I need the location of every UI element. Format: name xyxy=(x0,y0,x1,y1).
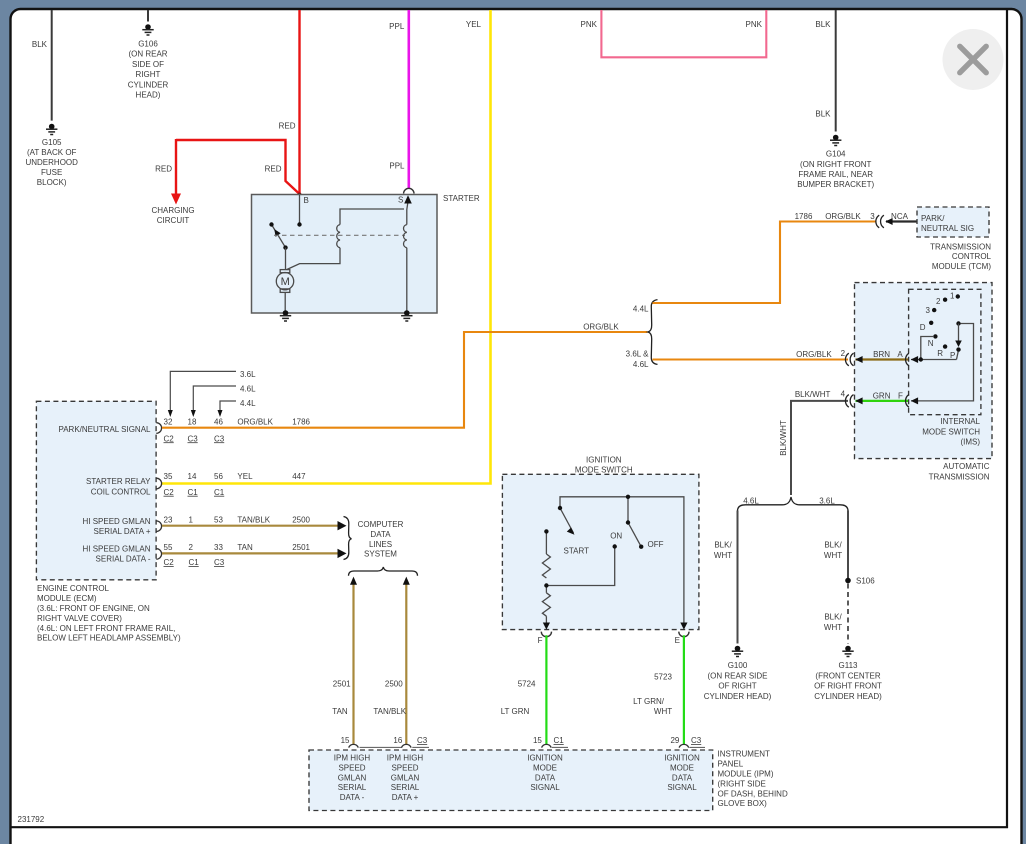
arrow to charging circuit xyxy=(151,194,194,226)
svg-text:F: F xyxy=(538,636,543,645)
svg-text:4: 4 xyxy=(841,390,846,399)
starter solenoid contact switch xyxy=(272,225,286,248)
wire TAN/BLK 2500 to IPM xyxy=(373,577,409,745)
svg-text:HI SPEED GMLAN: HI SPEED GMLAN xyxy=(82,545,150,554)
svg-text:F: F xyxy=(898,392,903,401)
svg-text:CYLINDER: CYLINDER xyxy=(128,80,169,89)
svg-text:231792: 231792 xyxy=(18,815,45,824)
node B junction dot red wire xyxy=(298,193,302,197)
engine variant stub 3.6L xyxy=(168,370,256,417)
svg-text:14: 14 xyxy=(188,472,197,481)
svg-text:MODULE (ECM): MODULE (ECM) xyxy=(37,594,97,603)
svg-text:LINES: LINES xyxy=(369,540,392,549)
svg-text:PARK/: PARK/ xyxy=(921,214,945,223)
svg-text:GMLAN: GMLAN xyxy=(391,773,420,782)
svg-text:HI SPEED GMLAN: HI SPEED GMLAN xyxy=(82,517,150,526)
IPM caption xyxy=(718,750,788,809)
svg-text:RED: RED xyxy=(155,165,172,174)
wire TAN serial data - xyxy=(162,549,347,558)
overbrace to IPM wires xyxy=(349,567,418,576)
svg-text:53: 53 xyxy=(214,515,223,524)
pin labels starter relay row xyxy=(164,472,307,497)
svg-text:INSTRUMENT: INSTRUMENT xyxy=(718,750,771,759)
connector arcs TCM xyxy=(876,215,884,228)
svg-text:C2: C2 xyxy=(164,434,175,443)
svg-text:TAN/BLK: TAN/BLK xyxy=(373,707,406,716)
svg-text:CYLINDER HEAD): CYLINDER HEAD) xyxy=(704,692,772,701)
svg-text:C3: C3 xyxy=(691,736,702,745)
svg-text:ORG/BLK: ORG/BLK xyxy=(796,350,832,359)
svg-text:(FRONT CENTER: (FRONT CENTER xyxy=(815,671,880,680)
svg-text:RED: RED xyxy=(265,165,282,174)
IMS connector arc F xyxy=(906,395,909,408)
automatic transmission box xyxy=(855,283,993,482)
svg-text:PNK: PNK xyxy=(581,20,598,29)
ECM pin connector arcs xyxy=(156,423,161,560)
svg-text:BLK: BLK xyxy=(815,20,831,29)
svg-text:N: N xyxy=(928,339,934,348)
svg-text:DATA -: DATA - xyxy=(340,793,365,802)
svg-text:BUMPER BRACKET): BUMPER BRACKET) xyxy=(797,180,874,189)
ground G113 xyxy=(814,646,882,701)
svg-text:IGNITION: IGNITION xyxy=(527,754,563,763)
svg-text:1: 1 xyxy=(950,292,955,301)
svg-text:ORG/BLK: ORG/BLK xyxy=(825,212,861,221)
svg-text:PPL: PPL xyxy=(389,22,405,31)
svg-text:447: 447 xyxy=(292,472,306,481)
svg-text:(AT BACK OF: (AT BACK OF xyxy=(27,148,77,157)
starter box xyxy=(252,194,480,313)
svg-text:E: E xyxy=(675,636,680,645)
pin labels serial data - row xyxy=(164,543,311,567)
svg-text:G113: G113 xyxy=(839,661,859,670)
svg-text:P: P xyxy=(950,351,955,360)
wire LT GRN 5724 xyxy=(501,635,547,744)
brace BLK/WHT split xyxy=(738,497,849,512)
pin E arrow xyxy=(675,623,689,646)
IMS internal wiring A xyxy=(911,337,958,360)
svg-text:A: A xyxy=(897,350,903,359)
IMS position dots xyxy=(929,294,961,352)
svg-text:COMPUTER: COMPUTER xyxy=(358,520,404,529)
svg-text:S: S xyxy=(398,195,403,204)
svg-text:BLK/: BLK/ xyxy=(714,541,732,550)
svg-text:SERIAL: SERIAL xyxy=(391,783,420,792)
svg-text:2501: 2501 xyxy=(292,543,310,552)
svg-text:(ON REAR: (ON REAR xyxy=(128,50,167,59)
starter pull-in coil xyxy=(287,209,404,270)
svg-text:G105: G105 xyxy=(42,138,62,147)
svg-text:ENGINE CONTROL: ENGINE CONTROL xyxy=(37,584,110,593)
svg-text:MODE: MODE xyxy=(670,764,694,773)
svg-text:BLOCK): BLOCK) xyxy=(37,178,67,187)
close button xyxy=(943,29,1004,90)
svg-text:OF RIGHT: OF RIGHT xyxy=(718,682,756,691)
svg-text:(RIGHT SIDE: (RIGHT SIDE xyxy=(718,779,766,788)
brace ORG/BLK split xyxy=(648,300,658,365)
IMS connector arc A xyxy=(906,353,909,366)
svg-text:CYLINDER HEAD): CYLINDER HEAD) xyxy=(814,692,882,701)
svg-text:3.6L: 3.6L xyxy=(819,497,835,506)
svg-text:SIGNAL: SIGNAL xyxy=(530,783,560,792)
svg-text:C2: C2 xyxy=(164,488,175,497)
svg-text:MODE SWITCH: MODE SWITCH xyxy=(922,427,980,436)
svg-text:SIDE OF: SIDE OF xyxy=(132,60,164,69)
svg-text:4.4L: 4.4L xyxy=(633,305,649,314)
svg-text:CIRCUIT: CIRCUIT xyxy=(157,216,190,225)
svg-text:RIGHT: RIGHT xyxy=(136,70,161,79)
wire YEL from top to ECM xyxy=(162,10,491,484)
svg-text:BLK: BLK xyxy=(815,110,831,119)
svg-text:IPM HIGH: IPM HIGH xyxy=(387,754,424,763)
IMS internal wiring F xyxy=(911,324,974,401)
svg-text:3: 3 xyxy=(870,212,875,221)
svg-text:2500: 2500 xyxy=(292,515,310,524)
splice S106 xyxy=(845,577,875,586)
svg-text:IPM HIGH: IPM HIGH xyxy=(334,754,371,763)
svg-text:YEL: YEL xyxy=(237,472,253,481)
wire PNK loop xyxy=(601,10,766,57)
svg-text:MODE SWITCH: MODE SWITCH xyxy=(575,465,633,474)
starter linkage dashed xyxy=(274,234,405,236)
svg-text:OF DASH, BEHIND: OF DASH, BEHIND xyxy=(718,789,788,798)
svg-text:C3: C3 xyxy=(188,434,199,443)
starter hold-in coil xyxy=(404,198,409,314)
wire GRN F xyxy=(855,392,908,405)
svg-text:RED: RED xyxy=(279,122,296,131)
wire ORG/BLK from ECM xyxy=(162,323,648,428)
ECM box xyxy=(36,401,156,580)
svg-text:LT GRN/: LT GRN/ xyxy=(633,697,665,706)
wire BLK/WHT to IMS F xyxy=(779,390,848,496)
svg-text:29: 29 xyxy=(670,736,679,745)
connector arcs IMS A outer xyxy=(845,353,853,366)
svg-text:BLK/WHT: BLK/WHT xyxy=(795,390,831,399)
brace computer data lines xyxy=(344,517,404,560)
svg-text:32: 32 xyxy=(164,417,173,426)
svg-text:5723: 5723 xyxy=(654,673,672,682)
svg-text:46: 46 xyxy=(214,417,223,426)
svg-text:MODULE (IPM): MODULE (IPM) xyxy=(718,770,774,779)
svg-text:4.6L: 4.6L xyxy=(240,384,256,393)
svg-text:TRANSMISSION: TRANSMISSION xyxy=(930,242,991,251)
svg-text:TRANSMISSION: TRANSMISSION xyxy=(929,472,990,481)
svg-text:2: 2 xyxy=(841,349,846,358)
IMS selector arm xyxy=(955,324,962,348)
svg-text:WHT: WHT xyxy=(654,707,672,716)
wire TAN 2501 to IPM xyxy=(332,577,357,745)
pin labels park/neutral row xyxy=(164,417,311,443)
svg-text:HEAD): HEAD) xyxy=(136,91,161,100)
svg-text:IGNITION: IGNITION xyxy=(664,754,700,763)
svg-text:4.4L: 4.4L xyxy=(240,399,256,408)
engine variant stub 4.4L xyxy=(218,399,257,417)
svg-text:RIGHT VALVE COVER): RIGHT VALVE COVER) xyxy=(37,614,122,623)
TCM box xyxy=(917,207,989,237)
dashed wire BLK/WHT to G113 xyxy=(824,584,848,644)
svg-text:56: 56 xyxy=(214,472,223,481)
svg-text:DATA: DATA xyxy=(370,530,391,539)
svg-text:C2: C2 xyxy=(164,558,175,567)
wire BLK/WHT to G100 xyxy=(714,511,738,644)
IMS inner box xyxy=(909,289,981,446)
svg-text:C3: C3 xyxy=(214,558,225,567)
svg-text:15: 15 xyxy=(533,736,542,745)
wire BRN A xyxy=(855,350,908,363)
svg-text:OF RIGHT FRONT: OF RIGHT FRONT xyxy=(814,682,882,691)
starter coil ground xyxy=(401,310,412,321)
svg-text:3: 3 xyxy=(926,306,931,315)
starter motor M xyxy=(276,270,293,313)
ignition switch resistors xyxy=(542,554,550,616)
svg-text:SIGNAL: SIGNAL xyxy=(667,783,697,792)
svg-text:SERIAL DATA +: SERIAL DATA + xyxy=(94,527,151,536)
svg-text:D: D xyxy=(920,323,926,332)
svg-text:INTERNAL: INTERNAL xyxy=(940,417,980,426)
svg-text:5724: 5724 xyxy=(518,680,536,689)
svg-text:DATA: DATA xyxy=(535,773,556,782)
svg-text:GMLAN: GMLAN xyxy=(338,773,367,782)
svg-text:G104: G104 xyxy=(826,150,846,159)
ground G100 xyxy=(704,646,772,701)
IPM column labels xyxy=(334,754,700,802)
svg-text:BLK/WHT: BLK/WHT xyxy=(779,420,788,456)
svg-text:C1: C1 xyxy=(188,488,199,497)
wire NCA to TCM xyxy=(885,212,917,225)
IPM box xyxy=(309,750,713,811)
svg-text:33: 33 xyxy=(214,543,223,552)
svg-text:2: 2 xyxy=(936,297,941,306)
svg-text:3.6L &: 3.6L & xyxy=(626,350,649,359)
svg-text:C3: C3 xyxy=(417,736,428,745)
svg-text:18: 18 xyxy=(188,417,197,426)
IPM pin 15 C1 xyxy=(533,736,568,747)
svg-text:R: R xyxy=(937,349,943,358)
svg-text:YEL: YEL xyxy=(466,20,482,29)
engine variant stub 4.6L xyxy=(191,384,256,417)
svg-text:PANEL: PANEL xyxy=(718,760,744,769)
svg-text:55: 55 xyxy=(164,543,173,552)
wire ORG/BLK 4.4L branch to TCM xyxy=(633,212,876,314)
ground G105 xyxy=(25,124,78,187)
svg-text:2501: 2501 xyxy=(333,680,351,689)
pin labels serial data + row xyxy=(164,515,311,524)
svg-text:1786: 1786 xyxy=(292,417,310,426)
svg-text:C1: C1 xyxy=(214,488,225,497)
pin F arrow xyxy=(538,623,552,646)
IPM pin 15 xyxy=(341,736,402,747)
wire TAN/BLK serial data + xyxy=(162,521,347,530)
svg-text:(ON RIGHT FRONT: (ON RIGHT FRONT xyxy=(800,160,872,169)
svg-text:OFF: OFF xyxy=(648,540,664,549)
wire contact to motor xyxy=(285,248,287,270)
svg-text:DATA +: DATA + xyxy=(392,793,419,802)
wire LT GRN/WHT 5723 xyxy=(633,635,684,744)
svg-text:2: 2 xyxy=(189,543,194,552)
svg-text:TAN: TAN xyxy=(237,543,253,552)
svg-text:DATA: DATA xyxy=(672,773,693,782)
svg-text:TAN: TAN xyxy=(332,707,348,716)
ECM caption xyxy=(37,584,181,643)
svg-text:(3.6L: FRONT OF ENGINE, ON: (3.6L: FRONT OF ENGINE, ON xyxy=(37,604,150,613)
svg-text:MODULE (TCM): MODULE (TCM) xyxy=(932,262,991,271)
svg-text:B: B xyxy=(304,196,309,205)
svg-text:2500: 2500 xyxy=(385,680,403,689)
svg-text:BRN: BRN xyxy=(873,350,890,359)
svg-text:BLK/: BLK/ xyxy=(824,613,842,622)
svg-text:SERIAL: SERIAL xyxy=(338,783,367,792)
svg-text:16: 16 xyxy=(393,736,402,745)
svg-text:23: 23 xyxy=(164,515,173,524)
svg-text:4.6L: 4.6L xyxy=(743,497,759,506)
svg-text:PNK: PNK xyxy=(746,20,763,29)
svg-text:NCA: NCA xyxy=(891,212,909,221)
svg-text:COIL CONTROL: COIL CONTROL xyxy=(91,488,151,497)
svg-text:AUTOMATIC: AUTOMATIC xyxy=(943,462,990,471)
svg-text:CHARGING: CHARGING xyxy=(151,206,194,215)
svg-text:WHT: WHT xyxy=(824,551,842,560)
TCM caption xyxy=(930,242,991,271)
ground G106 xyxy=(128,24,169,99)
wire ORG/BLK 3.6L 4.6L branch to IMS xyxy=(626,349,848,369)
svg-text:MODE: MODE xyxy=(533,764,557,773)
svg-text:SYSTEM: SYSTEM xyxy=(364,550,397,559)
connector arcs IMS F outer xyxy=(845,395,853,408)
svg-text:1: 1 xyxy=(189,515,194,524)
svg-text:3.6L: 3.6L xyxy=(240,370,256,379)
svg-text:STARTER: STARTER xyxy=(443,194,480,203)
wire RED battery feed xyxy=(176,10,300,196)
starter B pin wire xyxy=(297,195,301,227)
svg-text:UNDERHOOD: UNDERHOOD xyxy=(25,158,78,167)
svg-text:FRAME RAIL, NEAR: FRAME RAIL, NEAR xyxy=(798,170,873,179)
wire PPL from top xyxy=(389,10,409,188)
svg-text:GLOVE BOX): GLOVE BOX) xyxy=(718,799,768,808)
svg-text:FUSE: FUSE xyxy=(41,168,62,177)
svg-text:M: M xyxy=(281,276,290,288)
svg-text:GRN: GRN xyxy=(873,392,891,401)
svg-text:(4.6L: ON LEFT FRONT FRAME RAI: (4.6L: ON LEFT FRONT FRAME RAIL, xyxy=(37,624,175,633)
starter motor ground xyxy=(280,310,291,321)
svg-text:ON: ON xyxy=(610,531,622,540)
svg-text:BLK: BLK xyxy=(32,40,48,49)
svg-text:G106: G106 xyxy=(138,40,158,49)
svg-text:NEUTRAL SIG: NEUTRAL SIG xyxy=(921,224,974,233)
svg-text:LT GRN: LT GRN xyxy=(501,707,530,716)
svg-text:SPEED: SPEED xyxy=(338,764,365,773)
svg-text:PARK/NEUTRAL SIGNAL: PARK/NEUTRAL SIGNAL xyxy=(58,425,151,434)
svg-text:IGNITION: IGNITION xyxy=(586,455,622,464)
svg-text:WHT: WHT xyxy=(714,551,732,560)
svg-text:STARTER RELAY: STARTER RELAY xyxy=(86,477,151,486)
ignition switch contacts xyxy=(544,495,663,588)
svg-text:35: 35 xyxy=(164,472,173,481)
IPM pin 16 xyxy=(393,736,429,747)
ignition mode switch box xyxy=(502,455,699,629)
svg-text:1786: 1786 xyxy=(795,212,813,221)
svg-text:SERIAL DATA -: SERIAL DATA - xyxy=(96,555,151,564)
svg-text:SPEED: SPEED xyxy=(391,764,418,773)
wire BLK/WHT to S106 xyxy=(824,511,848,579)
svg-text:G100: G100 xyxy=(728,661,748,670)
svg-text:15: 15 xyxy=(341,736,350,745)
svg-text:ORG/BLK: ORG/BLK xyxy=(583,323,619,332)
svg-text:C1: C1 xyxy=(189,558,200,567)
wire BLK to G104 xyxy=(815,10,835,132)
ignition switch internal wiring xyxy=(546,497,684,625)
wire BLK to G106 xyxy=(147,10,149,22)
svg-text:CONTROL: CONTROL xyxy=(952,252,992,261)
svg-text:START: START xyxy=(564,547,590,556)
svg-text:PPL: PPL xyxy=(389,161,405,170)
svg-text:(IMS): (IMS) xyxy=(960,438,980,447)
svg-text:WHT: WHT xyxy=(824,623,842,632)
svg-text:(ON REAR SIDE: (ON REAR SIDE xyxy=(707,671,767,680)
svg-text:C3: C3 xyxy=(214,434,225,443)
svg-text:4.6L: 4.6L xyxy=(633,360,649,369)
svg-text:C1: C1 xyxy=(554,736,565,745)
IPM pin 29 C3 xyxy=(670,736,705,747)
connector cap at starter S xyxy=(404,188,414,193)
IMS position labels xyxy=(920,292,956,360)
starter S pin arrow xyxy=(404,195,412,203)
svg-text:BLK/: BLK/ xyxy=(824,541,842,550)
svg-text:ORG/BLK: ORG/BLK xyxy=(237,417,273,426)
svg-text:TAN/BLK: TAN/BLK xyxy=(237,515,270,524)
wire BLK to G105 xyxy=(32,10,52,121)
svg-text:S106: S106 xyxy=(856,577,875,586)
svg-text:BELOW LEFT HEADLAMP ASSEMBLY): BELOW LEFT HEADLAMP ASSEMBLY) xyxy=(37,634,181,643)
ground G104 xyxy=(797,135,874,189)
